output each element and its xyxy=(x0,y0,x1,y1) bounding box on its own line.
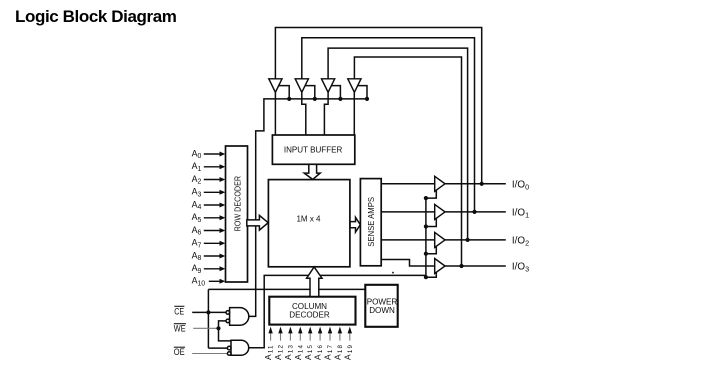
svg-text:A6: A6 xyxy=(192,225,202,237)
svg-text:I/O0: I/O0 xyxy=(512,179,529,191)
svg-text:A4: A4 xyxy=(192,199,202,211)
svg-text:A2: A2 xyxy=(192,174,202,186)
svg-text:A19: A19 xyxy=(342,344,353,360)
svg-text:I/O2: I/O2 xyxy=(512,236,529,248)
svg-text:CE: CE xyxy=(174,305,184,316)
svg-text:OE: OE xyxy=(174,346,185,357)
svg-text:I/O3: I/O3 xyxy=(512,262,529,274)
svg-text:A7: A7 xyxy=(192,238,202,250)
svg-text:DECODER: DECODER xyxy=(289,311,330,320)
svg-text:SENSE AMPS: SENSE AMPS xyxy=(367,197,376,247)
svg-text:WE: WE xyxy=(174,323,186,334)
svg-text:A10: A10 xyxy=(192,276,206,288)
svg-text:INPUT BUFFER: INPUT BUFFER xyxy=(284,146,343,155)
svg-text:A0: A0 xyxy=(192,148,202,160)
svg-text:1M x 4: 1M x 4 xyxy=(296,214,321,223)
svg-text:A5: A5 xyxy=(192,212,202,224)
svg-text:A9: A9 xyxy=(192,263,202,275)
svg-text:DOWN: DOWN xyxy=(369,306,395,315)
svg-text:A1: A1 xyxy=(192,161,202,173)
svg-text:A3: A3 xyxy=(192,187,202,199)
svg-text:A8: A8 xyxy=(192,250,202,262)
svg-text:ROW DECODER: ROW DECODER xyxy=(233,176,242,232)
svg-text:I/O1: I/O1 xyxy=(512,208,529,220)
